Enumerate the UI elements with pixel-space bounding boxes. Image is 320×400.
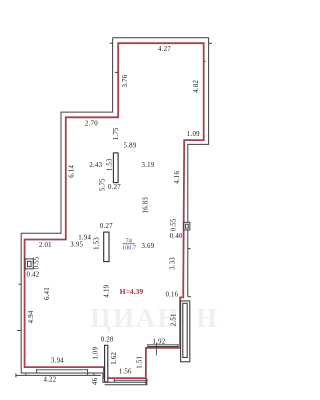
fixture right (0.40 x 0.55) bbox=[184, 222, 190, 230]
partition stub 2 (0.27 x 1.53) bbox=[104, 232, 109, 262]
partition stub 1 (0.27 x 1.53) bbox=[113, 153, 118, 183]
outer slab line bottom-left bbox=[16, 374, 101, 376]
tick left wall y330 bbox=[17, 329, 21, 331]
svg-text:H=4.39: H=4.39 bbox=[120, 287, 144, 296]
svg-text:6.14: 6.14 bbox=[68, 165, 75, 178]
svg-text:1.94: 1.94 bbox=[78, 235, 91, 242]
outer wall contour (thin dark) right side bbox=[113, 38, 209, 297]
svg-text:1.56: 1.56 bbox=[119, 369, 132, 376]
svg-text:3.69: 3.69 bbox=[142, 243, 155, 250]
tick left wall top block bbox=[115, 71, 118, 73]
red inner wall outline bbox=[25, 43, 204, 378]
window 3.94 bottom-left bbox=[37, 369, 88, 371]
svg-text:0.55: 0.55 bbox=[34, 256, 41, 269]
svg-text:1.75: 1.75 bbox=[113, 127, 120, 140]
svg-text:Н: Н bbox=[196, 303, 217, 333]
svg-text:3.19: 3.19 bbox=[142, 162, 155, 169]
tick left wall y284 bbox=[19, 283, 22, 285]
window band 1.92 bbox=[148, 345, 178, 347]
svg-text:0.55: 0.55 bbox=[170, 218, 177, 231]
svg-text:4.94: 4.94 bbox=[28, 310, 35, 323]
svg-text:1.62: 1.62 bbox=[111, 352, 118, 365]
svg-text:0.27: 0.27 bbox=[100, 223, 113, 230]
svg-text:4.27: 4.27 bbox=[158, 46, 171, 53]
svg-text:0.27: 0.27 bbox=[108, 184, 121, 191]
svg-text:1.09: 1.09 bbox=[92, 346, 99, 359]
connector at step bottom bbox=[145, 378, 147, 385]
svg-text:0.42: 0.42 bbox=[27, 271, 40, 278]
svg-text:2.43: 2.43 bbox=[89, 162, 102, 169]
svg-text:1.53: 1.53 bbox=[93, 237, 100, 250]
svg-text:3.33: 3.33 bbox=[169, 257, 176, 270]
partition stub 3 (0.28 x 1.09) bbox=[105, 345, 108, 382]
svg-text:100.7: 100.7 bbox=[122, 245, 136, 252]
svg-text:0.28: 0.28 bbox=[101, 337, 114, 344]
svg-text:0.40: 0.40 bbox=[170, 233, 183, 240]
svg-text:4.16: 4.16 bbox=[174, 171, 181, 184]
svg-text:ЦИАН: ЦИАН bbox=[90, 303, 181, 333]
fixture left (0.42 x 0.55) bbox=[25, 259, 33, 269]
svg-text:1.92: 1.92 bbox=[153, 338, 166, 345]
svg-text:6.41: 6.41 bbox=[44, 287, 51, 300]
svg-text:1.53: 1.53 bbox=[106, 158, 113, 171]
tall window right (inner) bbox=[183, 303, 187, 357]
room number / area fraction bbox=[122, 238, 136, 252]
svg-text:3.76: 3.76 bbox=[122, 74, 129, 87]
outer wall contour (thin dark) left side bbox=[21, 38, 146, 382]
svg-text:3.95: 3.95 bbox=[70, 242, 83, 249]
tick end of slab line bbox=[15, 373, 17, 377]
svg-text:2.01: 2.01 bbox=[39, 242, 52, 249]
svg-text:4.22: 4.22 bbox=[44, 377, 57, 384]
dimension labels horizontal bbox=[27, 46, 201, 384]
svg-text:46: 46 bbox=[92, 377, 99, 385]
bottom outer line under 1.56 window bbox=[105, 378, 147, 385]
svg-text:2.51: 2.51 bbox=[171, 313, 178, 326]
red tick right wall bbox=[203, 60, 206, 62]
svg-text:16.83: 16.83 bbox=[142, 197, 149, 214]
tick top-left corner bbox=[110, 42, 113, 44]
tall window right (outer) bbox=[181, 301, 190, 362]
svg-text:2.70: 2.70 bbox=[85, 120, 98, 127]
svg-text:5.75: 5.75 bbox=[100, 178, 107, 191]
svg-text:3.94: 3.94 bbox=[51, 358, 64, 365]
svg-text:0.16: 0.16 bbox=[165, 292, 178, 299]
watermark CIAN bbox=[90, 303, 217, 333]
tick 0.40 on right wall bbox=[188, 248, 191, 250]
svg-text:1.51: 1.51 bbox=[137, 356, 144, 369]
dimension labels vertical bbox=[28, 74, 200, 385]
svg-text:4.82: 4.82 bbox=[193, 80, 200, 93]
tick top-right corner bbox=[209, 42, 212, 44]
tick 0.16 step bbox=[188, 296, 191, 298]
svg-text:4.19: 4.19 bbox=[103, 284, 110, 297]
svg-text:1.09: 1.09 bbox=[187, 131, 200, 138]
svg-text:5.89: 5.89 bbox=[124, 142, 137, 149]
leader line 1.92 bbox=[155, 343, 157, 356]
window 1.56 bottom-center bbox=[114, 379, 146, 381]
